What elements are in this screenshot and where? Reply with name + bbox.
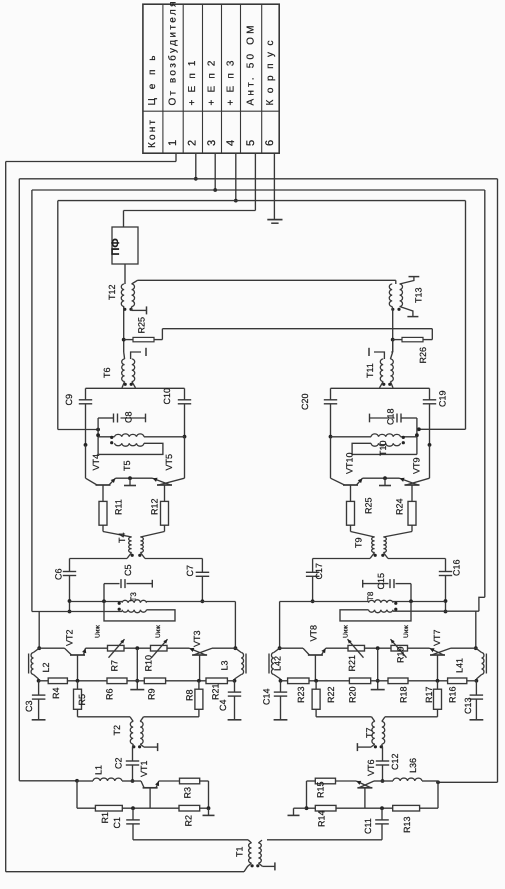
svg-text:VТ8: VТ8 <box>309 625 319 642</box>
svg-text:2: 2 <box>187 140 199 146</box>
resistor R22 <box>312 681 320 717</box>
svg-text:R5: R5 <box>77 694 87 706</box>
wire collector VТ10 <box>330 437 332 479</box>
wire balance line <box>162 328 432 330</box>
label pin number 1 <box>167 140 179 146</box>
svg-text:R15: R15 <box>315 781 325 798</box>
label +Еп1 <box>187 60 198 105</box>
svg-text:С15: С15 <box>376 573 386 590</box>
transformer T6 <box>122 352 136 388</box>
svg-text:R12: R12 <box>150 498 160 515</box>
label L36 <box>408 758 418 773</box>
svg-text:ПФ: ПФ <box>110 238 122 255</box>
svg-text:С20: С20 <box>300 393 310 410</box>
label VТ2 <box>65 629 75 646</box>
wire Т7 to C2 <box>381 744 384 761</box>
svg-text:VТ2: VТ2 <box>65 629 75 646</box>
svg-text:С3: С3 <box>24 700 34 712</box>
wire rail B bottom-left <box>19 779 79 783</box>
svg-text:R25: R25 <box>137 317 147 334</box>
wire to Т4 <box>103 532 165 538</box>
svg-text:R7: R7 <box>110 660 120 672</box>
resistor R5 <box>74 681 82 717</box>
wire pin1 stub <box>175 153 177 161</box>
label Т3 <box>129 592 138 602</box>
inductor L36 <box>383 778 439 781</box>
wire pin4 stub <box>234 153 238 202</box>
wire rail C left <box>31 190 33 612</box>
svg-text:Т7: Т7 <box>365 727 375 738</box>
ground input stage <box>203 808 215 815</box>
capacitor С13 <box>470 681 484 720</box>
capacitor С4 <box>228 681 242 720</box>
transistor VТ3 <box>189 648 235 681</box>
wire base rail left <box>420 781 438 808</box>
capacitor С17 <box>306 559 320 604</box>
svg-text:1: 1 <box>167 140 179 146</box>
svg-text:Т10: Т10 <box>378 440 388 456</box>
label R23 <box>296 686 306 703</box>
label VТ8 <box>309 625 319 642</box>
wire Т9 bottom <box>370 553 388 559</box>
ground T13 bottom <box>400 307 419 317</box>
wire base loop <box>78 716 199 718</box>
label VТ4 <box>91 454 101 471</box>
node R25 junction <box>122 338 126 342</box>
label Т4 <box>117 532 127 543</box>
label T13 <box>414 287 424 303</box>
capacitor С1 <box>126 808 140 840</box>
wire driver rail2 <box>70 599 203 603</box>
transformer Т7 <box>372 722 385 749</box>
wire С1 to T1 <box>133 839 248 841</box>
label T11 <box>365 363 375 378</box>
label VТ6 <box>366 759 376 776</box>
svg-text:R26: R26 <box>418 347 428 364</box>
wire base rail left <box>77 781 95 808</box>
wire rail B bottom-right <box>436 780 497 784</box>
label С15 <box>376 573 386 590</box>
svg-text:Т1: Т1 <box>235 846 245 857</box>
svg-text:R4: R4 <box>51 687 61 699</box>
wire Т5 loop <box>98 443 163 454</box>
label L1 <box>94 765 104 775</box>
label От возбудителя <box>167 2 178 106</box>
resistor R21 <box>326 639 391 658</box>
wire driver rail3 <box>393 597 485 611</box>
svg-text:Т12: Т12 <box>107 284 117 300</box>
wire emitter rail <box>363 476 400 480</box>
wire rail D left <box>57 201 59 430</box>
label С18 <box>386 408 396 425</box>
ground input stage <box>288 808 307 815</box>
svg-text:R23: R23 <box>296 686 306 703</box>
label Т7 <box>365 727 375 738</box>
resistor R11 <box>99 501 107 531</box>
wire Т3 loop <box>104 601 175 621</box>
svg-text:С16: С16 <box>452 559 462 576</box>
resistor R13 <box>336 805 420 811</box>
resistor R9 <box>127 678 166 684</box>
label Корпус <box>265 41 276 106</box>
connector column line 6 <box>261 4 263 153</box>
svg-text:R10: R10 <box>144 655 154 672</box>
svg-text:С1: С1 <box>112 817 122 829</box>
inductor L3 <box>233 648 246 682</box>
label U R19 <box>403 625 410 638</box>
capacitor С3 <box>32 681 46 720</box>
wire driver top rail <box>70 558 203 560</box>
capacitor С7 <box>196 559 210 604</box>
label U R21 <box>343 625 350 638</box>
label Т8 <box>366 591 375 601</box>
wire collector feed VТ3 <box>202 602 237 651</box>
wire T1 to rail A <box>244 863 252 872</box>
label pin number 4 <box>225 140 237 146</box>
label С20 <box>300 393 310 410</box>
wire R26 to balance line <box>423 329 432 340</box>
resistor R15 <box>307 778 357 808</box>
resistor R14 <box>305 805 336 811</box>
svg-text:С4: С4 <box>218 699 228 711</box>
resistor R18 <box>388 678 448 684</box>
capacitor С2 <box>126 761 139 783</box>
wire rail B left <box>18 179 20 781</box>
transformer Т9 <box>372 537 387 557</box>
svg-text:5: 5 <box>245 140 257 146</box>
svg-text:R20: R20 <box>348 686 358 703</box>
wire T12 primary down <box>123 307 125 353</box>
svg-text:С18: С18 <box>386 408 396 425</box>
transformer Т10 <box>371 434 417 446</box>
ground pin6 <box>267 153 282 223</box>
label R4 <box>51 687 61 699</box>
connector row divider <box>143 110 279 112</box>
label R18 <box>399 686 409 703</box>
inductor L42 <box>269 648 282 682</box>
transformer Т3 <box>118 600 147 613</box>
label R7 <box>110 660 120 672</box>
svg-text:VТ6: VТ6 <box>366 759 376 776</box>
wire driver top rail <box>313 558 446 560</box>
wire Т10 loop <box>352 443 417 454</box>
transformer Т4 <box>129 537 144 557</box>
svg-text:R25: R25 <box>364 497 374 514</box>
wire Т8 loop <box>340 601 411 621</box>
label U R10 <box>155 625 162 638</box>
wire T13 primary down <box>391 307 394 353</box>
wire collector VТ5 <box>184 437 186 479</box>
svg-text:VТ1: VТ1 <box>139 760 149 777</box>
svg-text:С6: С6 <box>54 568 64 580</box>
svg-text:R22: R22 <box>326 686 336 703</box>
wire output stage top rail <box>331 387 430 389</box>
svg-text:4: 4 <box>225 140 237 146</box>
ground emitter <box>124 478 136 485</box>
capacitor С16 <box>439 559 452 614</box>
svg-text:L42: L42 <box>272 656 282 671</box>
label VТ1 <box>139 760 149 777</box>
svg-text:С10: С10 <box>162 388 172 405</box>
ground T6 top-right <box>131 348 146 359</box>
capacitor С9 <box>79 388 92 447</box>
resistor R23 <box>281 678 350 684</box>
node R26 junction <box>391 338 395 342</box>
transformer T11 <box>380 352 394 388</box>
resistor R16 <box>448 678 477 684</box>
resistor R10 <box>124 639 189 658</box>
svg-text:Т6: Т6 <box>102 367 112 378</box>
svg-text:R14: R14 <box>316 810 326 827</box>
svg-text:С14: С14 <box>262 688 272 705</box>
svg-text:Uиж: Uиж <box>155 625 162 638</box>
svg-text:R24: R24 <box>395 498 405 515</box>
wire Т4 bottom <box>127 553 145 559</box>
label С12 <box>390 753 400 770</box>
label R20 <box>348 686 358 703</box>
label pin number 6 <box>264 140 276 146</box>
label R17 <box>424 686 434 703</box>
transistor VТ8 <box>280 648 326 681</box>
wire rail D bottom-right <box>417 427 466 431</box>
transistor VТ2 <box>39 648 86 681</box>
wire rail A bottom <box>6 871 244 873</box>
capacitor С15 <box>363 579 411 601</box>
wire collector feed VТ7 <box>474 612 478 651</box>
resistor R12 <box>161 501 169 531</box>
svg-text:С5: С5 <box>123 564 133 576</box>
label Т5 <box>122 460 132 471</box>
ground driver center <box>130 689 144 691</box>
capacitor С8 <box>98 414 145 430</box>
resistor R3 <box>159 778 209 808</box>
label L42 <box>272 656 282 671</box>
connector column line 4 <box>221 4 223 153</box>
wire T12 to T13 <box>132 280 396 284</box>
resistor R26 <box>393 337 423 341</box>
wire pin2 stub <box>194 153 198 181</box>
wire R25 to balance line <box>154 329 162 340</box>
label R21 <box>211 683 221 700</box>
wire С11 to T1 <box>267 839 382 841</box>
label VТ9 <box>412 457 422 474</box>
svg-text:Т8: Т8 <box>366 591 375 601</box>
ground T13 top <box>400 277 420 284</box>
label С3 <box>24 700 34 712</box>
label С4 <box>218 699 228 711</box>
svg-text:С8: С8 <box>124 411 134 423</box>
wire collector VТ9 <box>429 445 431 478</box>
label С14 <box>262 688 272 705</box>
wire Т5 left vertical <box>96 430 100 455</box>
label R24 <box>395 498 405 515</box>
svg-text:VТ5: VТ5 <box>164 454 174 471</box>
svg-text:R1: R1 <box>100 812 110 824</box>
wire Т10 left vertical <box>415 430 419 455</box>
label С8 <box>124 411 134 423</box>
transistor VТ4 <box>86 478 116 501</box>
transformer T1 <box>248 840 262 868</box>
wire base loop <box>316 716 437 718</box>
wire rail B top <box>19 178 497 180</box>
capacitor С6 <box>63 559 76 614</box>
svg-text:L1: L1 <box>94 765 104 775</box>
filter ПФ box <box>112 227 138 264</box>
svg-text:L2: L2 <box>41 662 51 672</box>
wire T11 primary top <box>391 340 392 352</box>
svg-text:R21: R21 <box>211 683 221 700</box>
svg-text:6: 6 <box>264 140 276 146</box>
label R21 <box>347 655 357 672</box>
connector XS1 table frame <box>143 4 279 153</box>
wire rail D bottom-left <box>58 428 100 432</box>
svg-text:R21: R21 <box>347 655 357 672</box>
wire rail C right <box>484 190 486 597</box>
inductor L41 <box>475 648 487 682</box>
wire output stage top rail <box>86 387 185 389</box>
svg-text:Т5: Т5 <box>122 460 132 471</box>
label R6 <box>105 688 115 700</box>
wire rail A top <box>6 161 176 163</box>
label VТ7 <box>432 629 442 646</box>
wire collector feed VТ2 <box>37 612 41 651</box>
ground driver center <box>371 689 385 691</box>
wire Т5 top rail <box>144 436 185 438</box>
svg-text:С7: С7 <box>185 565 195 577</box>
resistor R25 <box>347 501 355 531</box>
label R25 <box>364 497 374 514</box>
label R22 <box>326 686 336 703</box>
wire Т2 to C2 <box>132 744 135 761</box>
svg-text:Uиж: Uиж <box>95 625 102 638</box>
transformer Т5 <box>98 434 144 446</box>
capacitor С18 <box>370 414 417 430</box>
label С16 <box>452 559 462 576</box>
label С1 <box>112 817 122 829</box>
ground T11 top-left <box>369 348 384 359</box>
resistor R21 <box>166 678 235 684</box>
svg-text:R19: R19 <box>396 646 406 663</box>
connector column line 3 <box>202 4 204 153</box>
svg-text:R8: R8 <box>185 689 195 701</box>
wire center vertical <box>376 648 380 689</box>
svg-text:R17: R17 <box>424 686 434 703</box>
label С9 <box>64 394 74 406</box>
wire collector feed VТ8 <box>278 602 313 651</box>
capacitor С10 <box>178 388 191 438</box>
svg-text:С11: С11 <box>363 818 373 834</box>
resistor R4 <box>39 678 68 684</box>
wire to Т9 <box>351 532 413 538</box>
svg-text:Т11: Т11 <box>365 363 375 378</box>
label ПФ <box>110 238 122 255</box>
svg-text:VТ7: VТ7 <box>432 629 442 646</box>
svg-text:VТ10: VТ10 <box>345 452 355 474</box>
label +Еп2 <box>206 60 217 105</box>
svg-text:Т4: Т4 <box>117 532 127 543</box>
label L41 <box>454 658 464 673</box>
label U R7 <box>95 625 102 638</box>
label С5 <box>123 564 133 576</box>
wire center vertical <box>135 648 139 689</box>
label T12 <box>107 284 117 300</box>
wire filter to T12 <box>124 264 126 284</box>
transformer Т8 <box>369 600 398 613</box>
resistor R19 <box>391 639 430 658</box>
label С11 <box>363 818 373 834</box>
transistor VТ5 <box>153 478 185 502</box>
svg-text:R13: R13 <box>402 816 412 833</box>
label +Еп3 <box>225 60 236 105</box>
label Т2 <box>112 725 122 736</box>
svg-text:L3: L3 <box>220 660 230 670</box>
capacitor С14 <box>274 681 288 720</box>
label VТ5 <box>164 454 174 471</box>
svg-text:Т3: Т3 <box>129 592 138 602</box>
svg-text:R3: R3 <box>183 787 193 799</box>
label Цепь <box>147 56 158 106</box>
svg-text:R16: R16 <box>448 686 458 703</box>
resistor R20 <box>349 678 388 684</box>
svg-text:Ант. 50 ОМ: Ант. 50 ОМ <box>245 26 256 106</box>
svg-text:С2: С2 <box>114 757 124 769</box>
ground T12 secondary <box>132 306 147 314</box>
svg-text:VТ3: VТ3 <box>192 630 202 647</box>
resistor R6 <box>67 678 127 684</box>
resistor R17 <box>434 681 442 717</box>
label С19 <box>438 390 448 407</box>
svg-text:Uиж: Uиж <box>343 625 350 638</box>
transistor VТ7 <box>430 648 476 681</box>
svg-text:С13: С13 <box>463 697 473 714</box>
wire pin5 to filter <box>124 153 256 227</box>
connector column line 5 <box>240 4 242 153</box>
label R8 <box>185 689 195 701</box>
label R5 <box>77 694 87 706</box>
resistor R8 <box>195 681 203 717</box>
svg-text:Т13: Т13 <box>414 287 424 303</box>
wire to Т7 <box>372 717 386 722</box>
label R10 <box>144 655 154 672</box>
ground emitter <box>379 478 391 485</box>
label R11 <box>114 499 124 515</box>
label R2 <box>184 815 194 827</box>
svg-text:R18: R18 <box>399 686 409 703</box>
transistor VТ10 <box>331 478 363 501</box>
resistor R25 <box>124 337 154 341</box>
label С7 <box>185 565 195 577</box>
capacitor С20 <box>324 388 337 438</box>
ground Т7 <box>357 743 374 751</box>
label R9 <box>147 688 157 700</box>
svg-text:R9: R9 <box>147 688 157 700</box>
transformer T12 <box>121 284 134 311</box>
svg-text:Т9: Т9 <box>354 537 364 548</box>
svg-text:VТ9: VТ9 <box>412 457 422 474</box>
svg-text:R11: R11 <box>114 499 124 515</box>
inductor L1 <box>77 778 133 781</box>
svg-text:VТ4: VТ4 <box>91 454 101 471</box>
connector column line 2 <box>182 4 184 153</box>
transformer Т2 <box>130 722 143 749</box>
svg-text:3: 3 <box>206 140 218 146</box>
label R25 <box>137 317 147 334</box>
wire rail A left <box>5 162 7 872</box>
label VТ3 <box>192 630 202 647</box>
svg-text:Т2: Т2 <box>112 725 122 736</box>
label L3 <box>220 660 230 670</box>
inductor L2 <box>29 648 41 682</box>
